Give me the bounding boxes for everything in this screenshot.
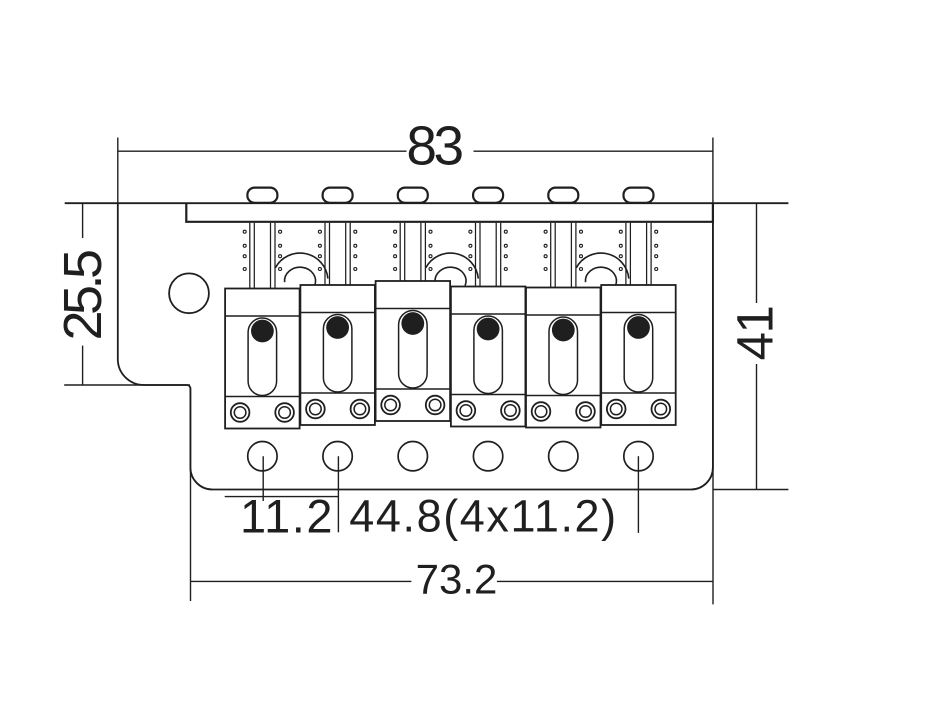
detail dots string 2 [318,230,356,270]
bridge base plate outline [118,203,713,489]
string ferrule 1 [247,188,277,203]
saddle 1 [225,289,300,429]
block arc outer 1 [275,253,328,279]
string ferrule 4 [473,188,503,203]
saddle 5 [526,288,601,428]
svg-text:83: 83 [406,115,462,177]
leader from hole 1 [262,456,264,501]
string ferrule 5 [548,188,578,203]
dim-83 left extension line [117,138,119,204]
block arc inner 1 [285,267,316,286]
dim-83 line right segment [474,150,713,152]
saddle 6 [601,285,676,425]
dim-11.2 line [225,496,339,498]
string ferrule 6 [624,188,654,203]
block arc outer 2 [426,253,479,279]
block arc inner 2 [435,267,466,286]
leader from hole 2 [337,456,339,532]
detail dots string 1 [243,230,281,270]
block arc outer 3 [576,253,629,279]
svg-text:73.2: 73.2 [416,556,498,603]
detail dots string 3 [394,230,432,270]
svg-text:11.2: 11.2 [240,490,334,543]
saddle 4 [451,287,526,427]
string channel rails 1 [250,223,275,291]
plate screw hole 3 [398,442,427,471]
dim-73.2 line left segment [191,580,412,582]
detail dots string 5 [544,230,582,270]
detail dots string 6 [619,230,657,270]
extension+plate-top line A [65,202,789,204]
plate back wall bar [186,203,713,222]
plate screw hole 4 [473,442,502,471]
string channel rails 6 [626,223,651,291]
plate screw hole 1 [248,442,277,471]
dim-41 bottom extension line [713,489,789,491]
leader from hole 6 [637,456,639,533]
plate screw hole 6 [624,442,653,471]
plate screw hole 5 [549,442,578,471]
detail dots string 4 [469,230,507,270]
string channel rails 2 [325,223,350,291]
block arc inner 3 [585,267,616,286]
dim-41 line lower segment [756,364,758,490]
saddle 2 [300,285,375,425]
dim-73.2 line right segment [497,580,713,582]
plate screw hole 2 [323,442,352,471]
svg-text:44.8(4x11.2): 44.8(4x11.2) [349,491,618,542]
mounting hole [169,273,209,313]
dim-73.2 right extension line [712,203,714,604]
dim-25.5 line upper segment [82,203,84,238]
dim-83 right extension line [712,138,714,204]
saddle 3 [376,281,451,421]
dim-25.5 bottom extension line [64,384,190,386]
dim-73.2 left extension line [190,389,192,602]
dim-41 line upper segment [756,203,758,303]
dim-25.5 line lower segment [82,346,84,385]
svg-text:25.5: 25.5 [53,251,113,341]
svg-text:41: 41 [727,307,784,361]
string ferrule 2 [323,188,353,203]
string channel rails 4 [476,223,501,291]
string channel rails 3 [400,223,425,291]
dim-83 line left segment [118,150,407,152]
string channel rails 5 [551,223,576,291]
string ferrule 3 [398,188,428,203]
